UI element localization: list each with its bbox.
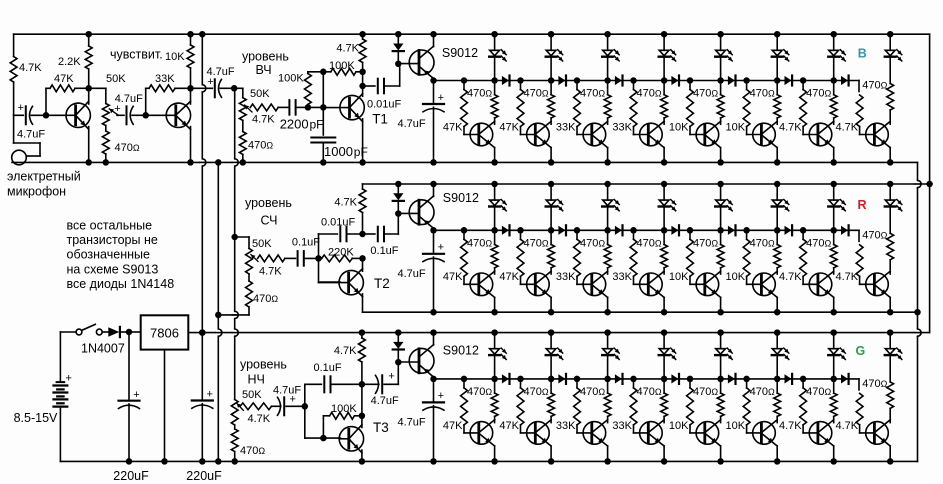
svg-text:47K: 47K — [499, 420, 519, 432]
svg-text:4.7uF: 4.7uF — [207, 66, 235, 78]
svg-text:4.7K: 4.7K — [336, 42, 359, 54]
svg-text:S9012: S9012 — [443, 191, 479, 205]
svg-text:СЧ: СЧ — [261, 214, 278, 228]
svg-text:+: + — [18, 102, 24, 114]
svg-text:4.7uF: 4.7uF — [17, 129, 45, 141]
svg-text:50K: 50K — [242, 389, 262, 401]
svg-text:470Ω: 470Ω — [637, 237, 662, 249]
svg-text:S9012: S9012 — [443, 343, 479, 357]
svg-text:470Ω: 470Ω — [467, 386, 492, 398]
svg-text:4.7uF: 4.7uF — [371, 395, 399, 407]
svg-text:7806: 7806 — [150, 326, 179, 341]
svg-text:+: + — [207, 76, 213, 88]
svg-text:+: + — [388, 371, 394, 383]
svg-text:все остальные: все остальные — [67, 219, 153, 233]
svg-text:ВЧ: ВЧ — [256, 63, 272, 77]
svg-text:4.7uF: 4.7uF — [397, 268, 425, 280]
svg-text:33K: 33K — [556, 121, 576, 133]
svg-text:47K: 47K — [443, 271, 463, 283]
svg-text:470Ω: 470Ω — [862, 230, 887, 242]
svg-text:220uF: 220uF — [186, 469, 222, 483]
svg-text:47K: 47K — [54, 73, 74, 85]
svg-text:33K: 33K — [155, 73, 175, 85]
svg-text:470Ω: 470Ω — [524, 386, 549, 398]
svg-text:47K: 47K — [499, 121, 519, 133]
svg-text:T3: T3 — [373, 420, 389, 435]
svg-text:1000: 1000 — [324, 144, 353, 159]
svg-text:0.01uF: 0.01uF — [321, 217, 356, 229]
svg-text:470Ω: 470Ω — [580, 88, 605, 100]
svg-text:470Ω: 470Ω — [750, 88, 775, 100]
svg-text:470Ω: 470Ω — [693, 386, 718, 398]
svg-text:4.7K: 4.7K — [259, 265, 282, 277]
svg-text:+: + — [290, 394, 296, 406]
svg-text:470Ω: 470Ω — [862, 378, 887, 390]
svg-text:0.01uF: 0.01uF — [367, 98, 402, 110]
svg-text:чувствит.: чувствит. — [110, 48, 163, 62]
svg-text:470Ω: 470Ω — [806, 88, 831, 100]
svg-text:4.7K: 4.7K — [835, 121, 858, 133]
svg-text:+: + — [207, 389, 213, 401]
svg-text:R: R — [858, 198, 867, 212]
svg-text:уровень: уровень — [240, 357, 287, 371]
svg-text:B: B — [858, 47, 867, 61]
svg-text:4.7K: 4.7K — [779, 420, 802, 432]
svg-text:+: + — [66, 373, 72, 385]
svg-text:+: + — [438, 390, 444, 402]
svg-text:470Ω: 470Ω — [467, 237, 492, 249]
svg-text:100K: 100K — [331, 403, 357, 415]
svg-text:50K: 50K — [250, 88, 270, 100]
svg-text:50K: 50K — [106, 73, 126, 85]
svg-text:470Ω: 470Ω — [693, 88, 718, 100]
svg-text:НЧ: НЧ — [248, 372, 265, 386]
svg-text:транзисторы не: транзисторы не — [67, 233, 158, 247]
svg-text:33K: 33K — [612, 420, 632, 432]
svg-text:электретный: электретный — [7, 170, 81, 184]
svg-text:+: + — [133, 389, 139, 401]
svg-text:на схеме S9013: на схеме S9013 — [67, 262, 159, 276]
svg-text:уровень: уровень — [242, 50, 289, 64]
svg-text:2.2K: 2.2K — [58, 56, 81, 68]
svg-text:4.7K: 4.7K — [835, 420, 858, 432]
svg-text:4.7K: 4.7K — [248, 413, 271, 425]
svg-text:470Ω: 470Ω — [240, 445, 265, 457]
svg-text:T2: T2 — [374, 276, 390, 291]
svg-text:10K: 10K — [669, 121, 689, 133]
svg-text:4.7uF: 4.7uF — [397, 417, 425, 429]
svg-text:220uF: 220uF — [113, 469, 149, 483]
svg-text:4.7uF: 4.7uF — [273, 385, 301, 397]
svg-text:33K: 33K — [612, 271, 632, 283]
svg-text:47K: 47K — [443, 420, 463, 432]
svg-text:470Ω: 470Ω — [524, 88, 549, 100]
svg-text:8.5-15V: 8.5-15V — [14, 411, 58, 425]
svg-text:470Ω: 470Ω — [580, 386, 605, 398]
svg-text:470Ω: 470Ω — [806, 386, 831, 398]
svg-text:все диоды 1N4148: все диоды 1N4148 — [67, 277, 175, 291]
svg-text:+: + — [114, 103, 120, 115]
svg-text:470Ω: 470Ω — [862, 80, 887, 92]
svg-text:4.7K: 4.7K — [252, 114, 275, 126]
svg-text:470Ω: 470Ω — [750, 386, 775, 398]
svg-text:47K: 47K — [443, 121, 463, 133]
svg-text:470Ω: 470Ω — [467, 88, 492, 100]
svg-text:100K: 100K — [278, 72, 304, 84]
svg-text:4.7K: 4.7K — [19, 62, 42, 74]
svg-text:220K: 220K — [328, 246, 354, 258]
svg-text:470Ω: 470Ω — [806, 237, 831, 249]
svg-text:10K: 10K — [669, 420, 689, 432]
svg-text:уровень: уровень — [245, 196, 292, 210]
svg-text:микрофон: микрофон — [7, 185, 66, 199]
svg-text:обозначенные: обозначенные — [67, 248, 150, 262]
svg-text:100K: 100K — [329, 60, 355, 72]
svg-text:10K: 10K — [726, 121, 746, 133]
svg-text:50K: 50K — [252, 238, 272, 250]
svg-text:2200: 2200 — [280, 116, 309, 131]
svg-text:4.7K: 4.7K — [779, 271, 802, 283]
svg-text:pF: pF — [354, 145, 368, 159]
svg-text:0.1uF: 0.1uF — [314, 362, 342, 374]
svg-text:0.1uF: 0.1uF — [292, 237, 320, 249]
svg-text:10K: 10K — [726, 420, 746, 432]
svg-text:33K: 33K — [556, 271, 576, 283]
svg-text:33K: 33K — [556, 420, 576, 432]
svg-text:10K: 10K — [669, 271, 689, 283]
svg-text:47K: 47K — [499, 271, 519, 283]
svg-text:33K: 33K — [612, 121, 632, 133]
svg-text:1N4007: 1N4007 — [81, 342, 125, 356]
svg-text:470Ω: 470Ω — [693, 237, 718, 249]
svg-text:+: + — [438, 92, 444, 104]
svg-text:4.7uF: 4.7uF — [115, 93, 143, 105]
svg-text:4.7K: 4.7K — [334, 196, 357, 208]
svg-text:pF: pF — [310, 117, 324, 131]
svg-text:G: G — [856, 344, 866, 358]
svg-text:470Ω: 470Ω — [524, 237, 549, 249]
svg-text:4.7K: 4.7K — [835, 271, 858, 283]
svg-text:T1: T1 — [372, 112, 388, 127]
svg-text:+: + — [438, 242, 444, 254]
svg-text:470Ω: 470Ω — [750, 237, 775, 249]
svg-text:470Ω: 470Ω — [115, 142, 140, 154]
svg-text:10K: 10K — [726, 271, 746, 283]
svg-text:470Ω: 470Ω — [637, 386, 662, 398]
svg-text:470Ω: 470Ω — [637, 88, 662, 100]
svg-text:4.7K: 4.7K — [779, 121, 802, 133]
svg-text:470Ω: 470Ω — [580, 237, 605, 249]
svg-text:10K: 10K — [165, 51, 185, 63]
svg-text:4.7uF: 4.7uF — [397, 118, 425, 130]
svg-text:0.1uF: 0.1uF — [370, 245, 398, 257]
svg-text:470Ω: 470Ω — [248, 140, 273, 152]
svg-text:4.7K: 4.7K — [334, 345, 357, 357]
svg-text:S9012: S9012 — [442, 46, 478, 60]
svg-text:470Ω: 470Ω — [253, 293, 278, 305]
